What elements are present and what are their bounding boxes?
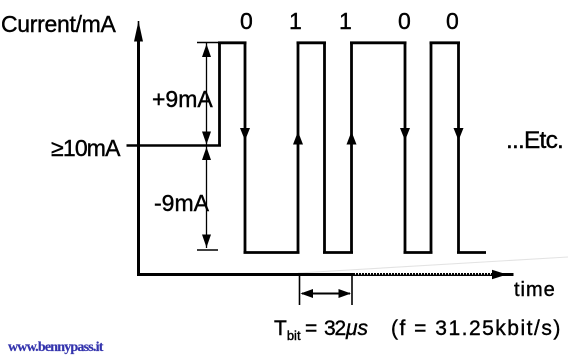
label f eq 31.25kbit/s: [391, 318, 562, 339]
waveform bottom segment 1: [244, 251, 300, 254]
waveform top segment (bit 1): [297, 41, 327, 44]
label -9mA: [154, 192, 209, 215]
-9mA dimension line: [197, 146, 218, 250]
waveform rising edge 1: [218, 42, 221, 147]
waveform bottom segment 4: [457, 251, 486, 254]
label equals: [305, 318, 317, 339]
waveform rising edge 4: [430, 42, 433, 254]
bit label 1: [339, 10, 352, 33]
+9mA dimension line: [197, 43, 218, 146]
waveform top segment (bits 1-0): [350, 41, 407, 44]
waveform bottom segment 2: [323, 251, 353, 254]
x-axis (time): [137, 270, 514, 279]
watermark www.bennypass.it: [8, 341, 103, 355]
y-axis: [134, 21, 143, 276]
waveform top segment (bit 0): [218, 41, 247, 44]
label Tbit: [274, 318, 301, 342]
label us italic: [346, 318, 368, 339]
bit label 0: [240, 10, 253, 33]
waveform falling edge 3 with down arrow: [400, 42, 410, 254]
Tbit dimension: [300, 276, 353, 305]
bit label 0: [446, 10, 459, 33]
waveform bottom segment 3: [404, 251, 433, 254]
label +9mA: [152, 88, 213, 111]
idle current mid-level line: [127, 144, 222, 146]
bit label 1: [289, 10, 302, 33]
waveform falling edge 1 with down arrow: [240, 42, 250, 254]
ghost artifact line: [298, 257, 568, 273]
bit label 0: [398, 10, 411, 33]
waveform rising edge 3 with up arrow: [347, 42, 357, 254]
waveform rising edge 2 with up arrow: [293, 42, 303, 254]
label >=10mA: [51, 137, 120, 160]
waveform falling edge 4 with down arrow: [454, 42, 464, 254]
waveform top segment (bit 0): [430, 41, 461, 44]
label time: [514, 280, 556, 300]
label Etc: [506, 129, 563, 154]
label Current/mA: [1, 13, 116, 36]
waveform falling edge 2: [323, 42, 326, 254]
label 32us: [324, 318, 345, 339]
